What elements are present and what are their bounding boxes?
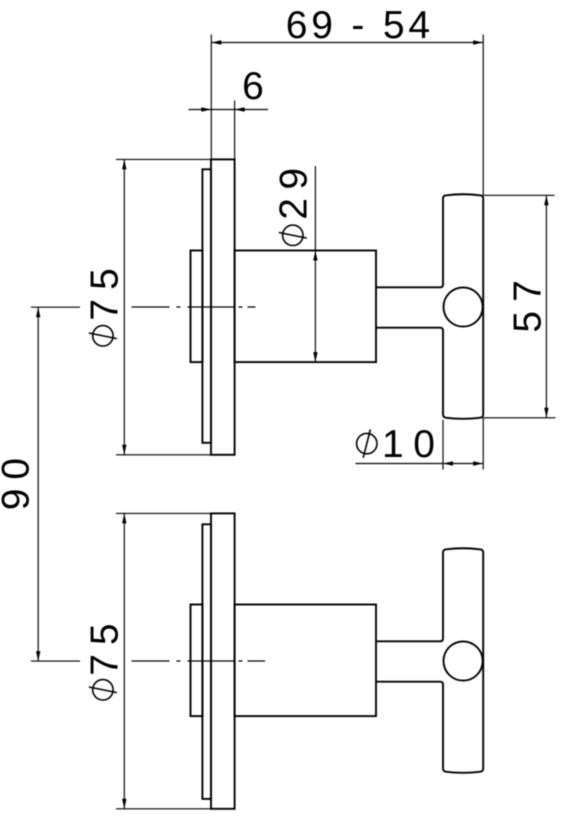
diameter symbol of O10 bbox=[357, 433, 377, 453]
arrow O10 left bbox=[443, 461, 453, 465]
arrow 57 bottom bbox=[544, 408, 548, 418]
top handle: cylinder body O29 bbox=[235, 251, 376, 363]
arrow O75 top bbox=[122, 159, 126, 169]
top handle: stem and cross bar outline bbox=[376, 194, 483, 419]
dimension O29 (cylinder diameter) bbox=[314, 166, 316, 362]
dimension O75 bottom flange bbox=[116, 513, 235, 808]
bottom handle: rear body step behind plate bbox=[191, 605, 203, 717]
extension line bottom (lower centerline) bbox=[31, 660, 80, 662]
dimension line bbox=[211, 42, 483, 44]
svg-text:75: 75 bbox=[84, 259, 127, 320]
dimension line bbox=[545, 195, 547, 417]
extension line top bbox=[116, 512, 235, 514]
top handle: wall flange (escutcheon side view) bbox=[211, 159, 235, 454]
diameter symbol of O75 top bbox=[93, 326, 113, 346]
top handle: front knob circle O10 bbox=[444, 287, 483, 326]
arrow left of 69-54 bbox=[211, 40, 221, 44]
dimension O75 top flange bbox=[116, 159, 235, 454]
arrow 6 right (points left) bbox=[235, 107, 245, 111]
dimension line bbox=[314, 166, 316, 362]
arrow O75 bottom bbox=[122, 445, 126, 455]
svg-text:90: 90 bbox=[0, 449, 38, 510]
bottom handle: stem and cross bar outline bbox=[376, 548, 483, 773]
dimension line bbox=[37, 307, 39, 661]
extension line bottom bbox=[116, 454, 235, 456]
arrow O29 top bbox=[313, 251, 317, 261]
extension line left (flange face) bbox=[210, 35, 212, 160]
extension line bottom bbox=[116, 808, 235, 810]
svg-text:29: 29 bbox=[272, 159, 315, 219]
arrow 57 top bbox=[544, 195, 548, 205]
arrow O75b bottom bbox=[122, 799, 126, 809]
extension line right bbox=[234, 101, 236, 160]
extension line top bbox=[483, 194, 554, 196]
svg-text:69 - 54: 69 - 54 bbox=[286, 4, 434, 47]
svg-text:10: 10 bbox=[382, 423, 444, 466]
diameter symbol of O75 bottom bbox=[93, 680, 113, 700]
svg-text:6: 6 bbox=[242, 65, 264, 108]
arrow O75b top bbox=[122, 513, 126, 523]
extension line top (upper centerline) bbox=[31, 306, 80, 308]
arrow right of 69-54 bbox=[473, 40, 483, 44]
dimension O10 (bar diameter) bbox=[356, 418, 484, 470]
top handle: centerline bbox=[132, 306, 256, 308]
svg-text:75: 75 bbox=[84, 614, 127, 675]
extension line right (bar end) bbox=[482, 35, 484, 196]
bottom handle: centerline bbox=[132, 660, 266, 662]
dimension line with leader bbox=[356, 463, 484, 465]
bottom handle: front knob circle bbox=[444, 641, 483, 680]
arrow 90 top bbox=[36, 307, 40, 317]
extension line right bbox=[482, 418, 484, 470]
bottom handle: cylinder body bbox=[235, 605, 376, 717]
top handle: thin back plate bbox=[202, 169, 211, 443]
extension line left bbox=[442, 420, 444, 470]
dimension line bbox=[123, 513, 125, 808]
extension line bottom bbox=[483, 417, 555, 419]
top handle: rear body step behind plate bbox=[191, 251, 203, 363]
bottom handle: wall flange (escutcheon side view) bbox=[211, 513, 235, 808]
dimension 69-54 bbox=[211, 35, 483, 196]
dimension line with outside arrows bbox=[189, 109, 269, 111]
diameter symbol of O29 bbox=[283, 225, 303, 245]
dimension 57 (bar length) bbox=[483, 195, 555, 417]
arrow 90 bottom bbox=[36, 651, 40, 661]
svg-text:57: 57 bbox=[507, 271, 550, 332]
dimension 90 (spacing between handles) bbox=[31, 307, 80, 661]
arrow O29 bottom bbox=[313, 352, 317, 362]
dimension line bbox=[123, 159, 125, 454]
arrow 6 left (points right) bbox=[201, 107, 211, 111]
arrow O10 right bbox=[473, 461, 483, 465]
extension line top bbox=[116, 158, 235, 160]
dimension 6 (flange thickness) bbox=[189, 101, 269, 160]
bottom handle: thin back plate bbox=[202, 524, 211, 799]
